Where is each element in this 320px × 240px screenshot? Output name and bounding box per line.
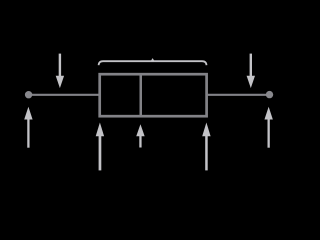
component box (two-section body) (100, 74, 207, 116)
arrow down-left (applied force onto left wire) (56, 54, 64, 89)
brace (over-brace spanning box) (99, 61, 207, 65)
node right terminal dot (266, 91, 273, 98)
arrow up under right terminal (264, 107, 272, 148)
wire right (box to terminal) (206, 94, 270, 96)
arrow up long under box left edge (96, 123, 104, 171)
arrow up middle (under divider) (136, 124, 144, 147)
wire left (terminal to box) (28, 94, 100, 96)
brace center nub (150, 58, 155, 62)
arrow up under left terminal (24, 107, 32, 148)
arrow down-right (applied force onto right wire) (247, 54, 255, 89)
divider (internal partition) (140, 73, 143, 117)
arrow up long under box right edge (202, 123, 210, 171)
node left terminal dot (25, 91, 32, 98)
